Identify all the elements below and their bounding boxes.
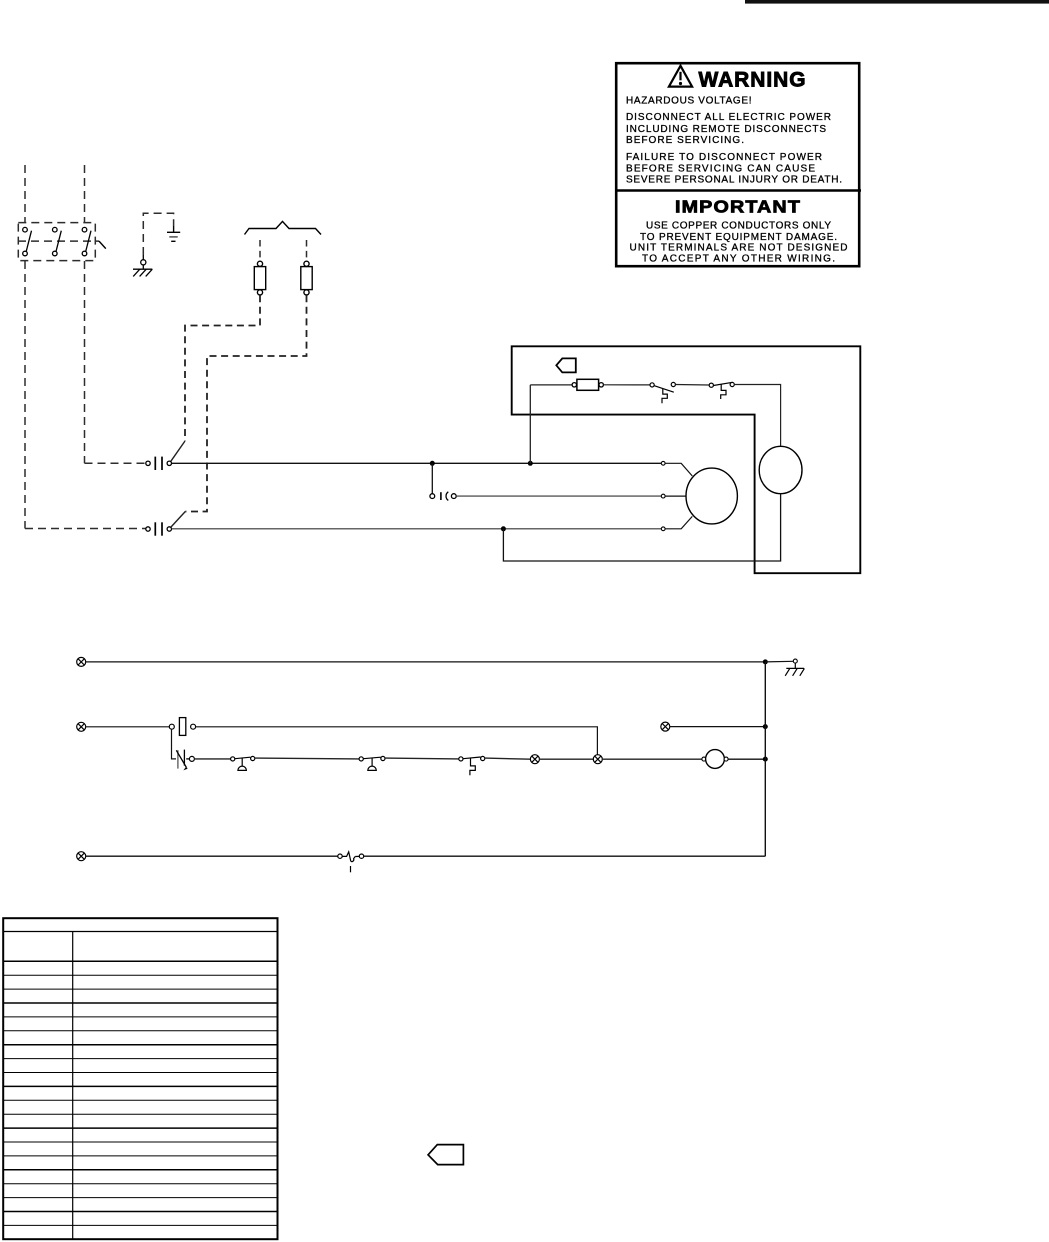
reset switch S3 <box>459 756 485 775</box>
disconnect linkage dashed line <box>18 240 99 242</box>
field power brace <box>245 221 322 234</box>
low pressure switch <box>709 382 734 399</box>
outdoor fan motor OFM <box>759 446 802 493</box>
wire L2 <box>456 495 661 497</box>
control ground node <box>793 659 797 663</box>
svg-text:HAZARDOUS VOLTAGE!: HAZARDOUS VOLTAGE! <box>626 95 752 106</box>
pressure switch PS2 <box>359 756 385 770</box>
fuse F2 <box>301 261 312 295</box>
fan return wire <box>503 494 780 561</box>
thermostat element <box>342 852 359 872</box>
svg-text:BEFORE SERVICING.: BEFORE SERVICING. <box>626 135 744 146</box>
terminal plug T1 <box>146 457 172 470</box>
disconnect switch DISC dashed box <box>18 223 95 261</box>
control line 4 <box>85 855 337 857</box>
svg-text:TO ACCEPT ANY OTHER WIRING.: TO ACCEPT ANY OTHER WIRING. <box>642 254 835 265</box>
control terminal X1 <box>77 657 86 666</box>
control terminal X4 <box>593 755 602 764</box>
legend table <box>3 918 277 1239</box>
fuse F1 lead <box>259 240 261 261</box>
wire to pressure switch 1 <box>194 758 231 760</box>
thermostat node left <box>338 854 342 858</box>
warning label border <box>615 63 861 266</box>
compressor lead 1 <box>665 463 692 476</box>
compressor terminal node 1 <box>661 461 665 465</box>
node junction bus mid <box>763 724 768 729</box>
breaker contact <box>176 750 190 769</box>
field power supply dashed leads <box>25 165 146 529</box>
disconnect pole 1 <box>23 227 32 255</box>
svg-text:INCLUDING REMOTE DISCONNECTS: INCLUDING REMOTE DISCONNECTS <box>626 124 826 135</box>
pressure switch PS1 <box>231 756 255 770</box>
warning text lines <box>626 95 842 185</box>
control terminal X2 <box>77 722 86 731</box>
wire to LPS <box>675 384 709 387</box>
control chassis ground <box>785 663 804 676</box>
node junction bus top <box>763 659 768 664</box>
page header bar <box>745 0 1049 4</box>
control terminal X3 <box>530 755 539 764</box>
control line 2 <box>85 726 169 728</box>
wire X5 to bus <box>669 726 765 728</box>
node junction L1-chain <box>528 461 533 466</box>
wire X4 to coil <box>602 758 702 760</box>
compressor terminal node 3 <box>661 527 665 531</box>
plug blade 1 <box>171 441 185 461</box>
wire line2 to drop <box>195 727 597 755</box>
node junction L3-fan return <box>501 526 506 531</box>
wire line2 branch down <box>172 729 177 759</box>
compressor lead 3 <box>665 516 692 528</box>
wire to fan drop <box>734 385 780 447</box>
bus wire right <box>764 662 766 856</box>
wire X3 to X4 <box>539 758 594 760</box>
wire L1 <box>172 462 662 464</box>
chassis ground symbol <box>133 269 152 276</box>
high pressure switch <box>650 382 675 403</box>
thermostat node right <box>359 854 363 858</box>
chassis ground node circle <box>141 255 146 269</box>
disconnect pole 2 <box>53 227 62 255</box>
svg-text:USE COPPER CONDUCTORS ONLY: USE COPPER CONDUCTORS ONLY <box>646 220 831 231</box>
wire to switch 3 <box>385 757 459 760</box>
important text lines <box>630 220 848 264</box>
earth ground symbol <box>167 226 180 242</box>
node junction bus coil <box>763 757 768 762</box>
transformer fuse <box>179 718 185 736</box>
wire L3 <box>172 528 662 530</box>
svg-text:UNIT TERMINALS ARE NOT DESIGNE: UNIT TERMINALS ARE NOT DESIGNED <box>630 242 848 253</box>
wire from chain down to L1 <box>529 385 531 463</box>
wire chain segment <box>530 384 572 386</box>
svg-text:BEFORE SERVICING CAN CAUSE: BEFORE SERVICING CAN CAUSE <box>626 163 815 174</box>
svg-text:WARNING: WARNING <box>699 68 807 92</box>
transformer fuse node left <box>169 724 174 729</box>
disconnect handle <box>99 241 106 249</box>
svg-text:TO PREVENT EQUIPMENT DAMAGE.: TO PREVENT EQUIPMENT DAMAGE. <box>640 232 837 243</box>
compressor motor COMP <box>686 468 737 524</box>
connection flag marker <box>556 358 576 372</box>
wire cap branch <box>431 463 433 494</box>
plug blade 2 <box>171 512 185 528</box>
unit enclosure outline <box>512 346 861 573</box>
fuse F1 dashed wire down to plug <box>185 295 260 441</box>
disconnect pole 3 <box>82 227 91 255</box>
fuse F2 lead <box>306 240 308 261</box>
svg-text:SEVERE PERSONAL INJURY OR DEAT: SEVERE PERSONAL INJURY OR DEATH. <box>626 175 842 186</box>
warning triangle icon <box>669 66 692 87</box>
wire line 4 to bus <box>364 855 766 857</box>
compressor terminal node 2 <box>661 494 665 498</box>
run capacitor <box>430 492 456 501</box>
wire to pressure switch 2 <box>255 757 360 760</box>
fuse F2 dashed wire down to plug <box>185 295 306 511</box>
contactor coil node right <box>724 757 728 761</box>
breaker node <box>189 756 194 761</box>
wire to HPS <box>603 384 650 386</box>
note flag marker <box>428 1145 463 1165</box>
contactor coil C <box>706 750 725 769</box>
compressor lead 2 <box>665 495 686 497</box>
wire to chassis ground <box>765 660 793 663</box>
contactor coil node left <box>702 757 706 761</box>
svg-text:IMPORTANT: IMPORTANT <box>675 197 801 217</box>
control terminal X6 <box>77 852 86 861</box>
wire coil to bus <box>728 758 765 760</box>
earth ground dashed lead <box>143 213 173 255</box>
control line 1 <box>85 661 765 663</box>
svg-text:FAILURE TO DISCONNECT POWER: FAILURE TO DISCONNECT POWER <box>626 152 822 163</box>
fuse F1 <box>254 261 265 295</box>
transformer fuse node right <box>191 724 196 729</box>
wire to terminal X3 <box>485 758 531 759</box>
control terminal X5 <box>661 722 670 731</box>
terminal plug T2 <box>146 522 172 535</box>
svg-text:DISCONNECT ALL ELECTRIC POWER: DISCONNECT ALL ELECTRIC POWER <box>626 112 831 123</box>
node junction L1-cap <box>430 461 435 466</box>
internal fuse <box>572 379 603 390</box>
